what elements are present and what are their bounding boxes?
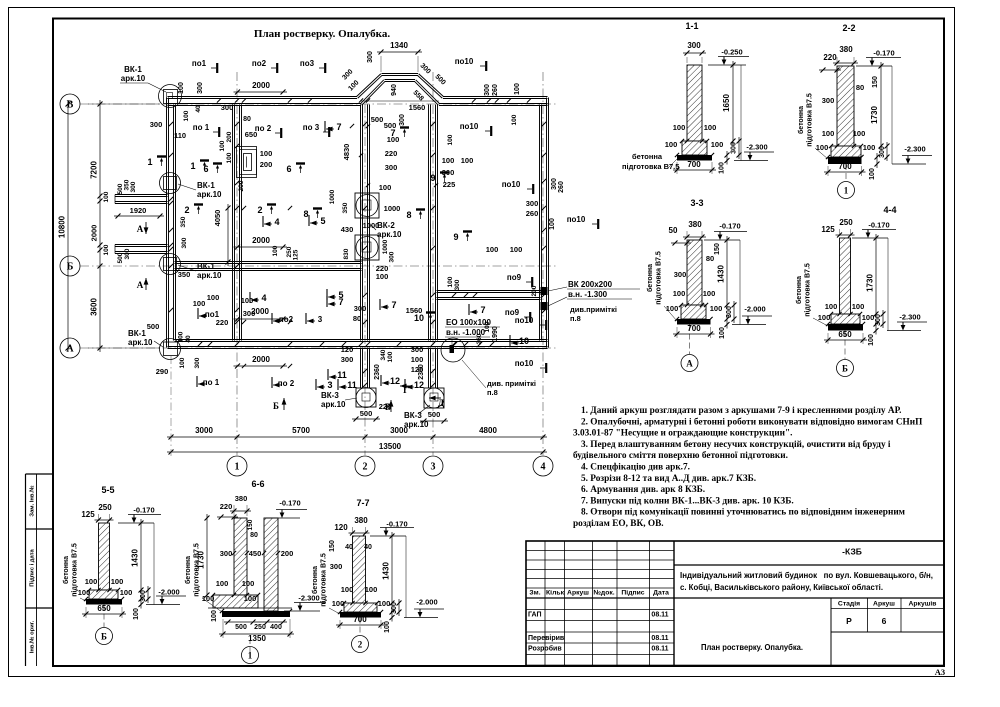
svg-text:100: 100 [260,149,273,158]
porch stub wall lower [115,246,168,248]
svg-text:див. приміткі: див. приміткі [487,379,536,388]
svg-text:Аркушів: Аркушів [909,600,937,608]
svg-text:бетонна: бетонна [632,152,663,161]
svg-text:500: 500 [384,121,397,130]
column pad VK-1 at axis B2 [164,258,177,271]
svg-text:100: 100 [133,608,140,620]
svg-text:-2.300: -2.300 [899,313,920,322]
corridor wall right wing [437,292,541,294]
svg-text:500: 500 [147,322,160,331]
svg-text:100: 100 [78,588,91,597]
svg-text:бетонна: бетонна [311,566,319,594]
svg-text:100: 100 [852,302,865,311]
svg-text:2: 2 [257,205,262,215]
svg-text:7: 7 [336,122,341,132]
svg-text:по10: по10 [460,122,479,131]
svg-text:7: 7 [480,305,485,315]
svg-text:1430: 1430 [717,265,726,283]
title block vertical lines left part [673,541,675,666]
svg-text:2360: 2360 [374,364,381,380]
wall intersection tick marks [235,98,239,102]
svg-text:100: 100 [384,621,391,633]
axis line B2 horizontal [80,265,556,267]
svg-text:260: 260 [492,84,499,96]
svg-text:100: 100 [226,152,233,163]
embedded item VK 200x200 lower [541,302,548,310]
svg-text:6: 6 [882,616,887,626]
svg-text:ВК-1: ВК-1 [128,329,146,338]
svg-text:№док.: №док. [593,590,614,597]
svg-text:500: 500 [428,410,441,419]
svg-text:3600: 3600 [90,298,99,316]
svg-text:2000: 2000 [252,236,270,245]
svg-text:100: 100 [241,296,254,305]
svg-text:125: 125 [821,225,835,234]
svg-text:9: 9 [453,232,458,242]
svg-text:100: 100 [365,585,378,594]
svg-text:1920: 1920 [130,206,147,215]
svg-text:100: 100 [514,83,521,95]
svg-text:Кільк: Кільк [546,589,565,597]
svg-text:100: 100 [120,588,133,597]
left dimension column inner [99,100,101,352]
svg-text:ВК-1: ВК-1 [197,262,215,271]
svg-text:100: 100 [376,272,389,281]
svg-text:-2.000: -2.000 [416,598,437,607]
slope mark 3 lower room [305,313,307,324]
svg-text:по 2: по 2 [278,379,295,388]
svg-text:250: 250 [98,503,112,512]
svg-text:арк.10: арк.10 [197,190,222,199]
bottom exterior wall axis A [168,348,548,350]
svg-text:А3: А3 [935,667,945,677]
svg-text:Б: Б [101,632,107,642]
svg-text:80: 80 [353,314,361,323]
svg-text:110: 110 [174,131,186,140]
svg-text:100: 100 [442,156,455,165]
svg-text:220: 220 [385,149,398,158]
svg-text:290: 290 [156,367,169,376]
svg-text:150: 150 [247,519,254,530]
svg-text:3. Перед влаштуванням бетону н: 3. Перед влаштуванням бетону несучих кон… [581,439,891,450]
svg-text:100: 100 [211,610,218,622]
dim 500 under VK-3 left [352,418,380,420]
left dimension column total 10800 [67,100,69,352]
dim 500 under VK-3 right [420,420,448,422]
svg-text:300: 300 [354,304,367,313]
svg-text:1340: 1340 [390,41,408,50]
svg-text:А: А [686,359,693,369]
svg-text:по 1: по 1 [203,378,220,387]
svg-text:100: 100 [387,351,394,362]
svg-text:10: 10 [519,336,529,346]
svg-text:150: 150 [872,76,879,88]
svg-text:120: 120 [411,365,424,374]
svg-text:830: 830 [343,248,350,259]
svg-text:ВК 200х200: ВК 200х200 [568,280,613,289]
svg-text:100: 100 [461,156,474,165]
column pad VK-2 lower [355,235,379,260]
svg-text:100: 100 [818,313,831,322]
svg-text:80: 80 [706,254,714,263]
svg-text:4: 4 [274,217,279,227]
svg-text:300: 300 [389,251,396,262]
svg-text:100: 100 [719,327,726,339]
svg-text:арк.10: арк.10 [197,271,222,280]
svg-text:100: 100 [242,579,255,588]
svg-text:План ростверку. Опалубка.: План ростверку. Опалубка. [701,642,803,652]
title block frame [526,541,944,666]
svg-text:5: 5 [320,216,325,226]
svg-text:100: 100 [666,304,679,313]
svg-text:8. Отвори під комунікації пови: 8. Отвори під комунікації повинні уточню… [581,507,906,518]
svg-text:4. Спецфікацію див арк.7.: 4. Спецфікацію див арк.7. [581,462,690,473]
svg-text:4-4: 4-4 [883,205,896,215]
svg-text:підготовка В7.5: підготовка В7.5 [320,553,328,607]
svg-text:300: 300 [220,549,233,558]
svg-text:7: 7 [391,300,396,310]
view arrow B bottom [283,398,285,410]
svg-text:Підпис і дата: Підпис і дата [30,548,36,586]
svg-text:2: 2 [184,205,189,215]
svg-text:1: 1 [248,651,253,661]
svg-text:100: 100 [711,140,724,149]
svg-text:-0.250: -0.250 [721,48,742,57]
axis line B horizontal [80,103,556,105]
svg-text:100: 100 [85,577,98,586]
title block stage table [830,598,832,666]
svg-text:с. Кобці, Васильківського райо: с. Кобці, Васильківського району, Київсь… [680,582,883,592]
svg-text:-2.000: -2.000 [158,588,179,597]
small duct wall near axis 1 [237,147,257,178]
svg-text:1000: 1000 [329,189,336,204]
svg-text:700: 700 [353,615,367,624]
svg-text:100: 100 [387,135,400,144]
svg-text:1730: 1730 [870,106,879,124]
svg-text:500: 500 [360,409,373,418]
svg-text:3: 3 [327,380,332,390]
column pad VK-3 right [424,388,444,408]
svg-text:Б: Б [273,401,279,411]
svg-text:200: 200 [238,180,245,191]
svg-text:бетонна: бетонна [795,276,803,304]
svg-text:арк.10: арк.10 [377,230,402,239]
svg-text:5. Розрізи 8-12 та вид А..Д ди: 5. Розрізи 8-12 та вид А..Д див. арк.7 К… [581,473,756,484]
svg-text:6-6: 6-6 [251,479,264,489]
svg-text:по10: по10 [515,316,534,325]
svg-text:3-3: 3-3 [690,198,703,208]
svg-text:380: 380 [839,45,853,54]
svg-text:-0.170: -0.170 [868,221,889,230]
svg-text:100: 100 [178,331,185,342]
svg-text:50: 50 [669,226,678,235]
svg-text:7200: 7200 [90,161,99,179]
view arrow V [390,400,392,412]
svg-text:100: 100 [710,304,723,313]
svg-text:1990: 1990 [492,326,499,342]
svg-text:Стадія: Стадія [838,600,860,608]
svg-text:100: 100 [178,82,185,94]
svg-text:300: 300 [822,96,835,105]
svg-text:-0.170: -0.170 [279,499,300,508]
svg-text:1650: 1650 [722,94,731,112]
svg-text:100: 100 [202,594,215,603]
svg-text:6. Армування див. арк 8 КЗБ.: 6. Армування див. арк 8 КЗБ. [581,485,705,495]
left exterior wall [166,98,168,348]
interior wall axis B2 [175,263,362,265]
svg-text:Підпис: Підпис [621,589,644,597]
dim 2000 room2 [234,246,288,248]
title block horizontal lines left part [526,550,674,552]
svg-text:300: 300 [221,103,234,112]
view arrow A upper [145,222,147,234]
svg-text:п.8: п.8 [570,314,581,323]
svg-text:А: А [137,224,144,234]
svg-text:2000: 2000 [252,81,270,90]
svg-text:100: 100 [447,276,454,287]
svg-text:40: 40 [195,105,202,113]
svg-text:100: 100 [447,134,454,145]
svg-text:100: 100 [193,299,206,308]
svg-text:500: 500 [371,115,384,124]
svg-text:100: 100 [673,123,686,132]
svg-text:100: 100 [379,183,392,192]
svg-text:1. Даний аркуш розглядати разо: 1. Даний аркуш розглядати разом з аркуша… [581,405,901,416]
svg-text:7. Випуски під колни ВК-1...ВК: 7. Випуски під колни ВК-1...ВК-3 див. ар… [581,495,794,506]
svg-text:-0.170: -0.170 [719,222,740,231]
svg-text:4830: 4830 [342,144,351,161]
column pad VK-1 bottom-left [164,342,178,356]
svg-text:450: 450 [249,549,262,558]
embedded item VK 200x200 upper [541,287,548,295]
svg-text:арк.10: арк.10 [121,74,146,83]
svg-text:по10: по10 [502,180,521,189]
svg-text:260: 260 [476,333,483,344]
svg-text:380: 380 [235,494,248,503]
svg-text:260: 260 [558,181,565,193]
svg-text:300: 300 [674,270,687,279]
svg-text:Дата: Дата [653,590,669,597]
svg-text:100: 100 [378,599,391,608]
svg-text:8: 8 [303,209,308,219]
svg-text:300: 300 [181,237,188,248]
svg-text:5-5: 5-5 [101,485,114,495]
axis bubble B [60,94,80,114]
axis line A horizontal [80,347,556,349]
svg-text:4: 4 [541,462,546,473]
view arrow A lower [145,278,147,290]
svg-text:10800: 10800 [58,215,67,238]
svg-text:80: 80 [856,83,864,92]
svg-text:1730: 1730 [866,274,875,292]
svg-text:100: 100 [179,357,186,368]
slope label po2 lower room [271,313,273,324]
svg-text:3: 3 [431,462,436,473]
top exterior wall axis B [168,98,358,100]
svg-text:Зам. Інв.№: Зам. Інв.№ [30,485,36,516]
svg-text:700: 700 [687,324,701,333]
dim 1340 bay [377,51,422,53]
svg-text:1430: 1430 [382,562,391,580]
svg-text:розділам ЕО, ВК, ОВ.: розділам ЕО, ВК, ОВ. [573,518,664,529]
title block doc code cell [674,564,944,566]
svg-text:100: 100 [341,585,354,594]
svg-text:260: 260 [526,209,539,218]
axis bubble A [60,338,80,358]
svg-text:А: А [137,280,144,290]
axis bubble 1 [227,456,247,476]
svg-text:100: 100 [332,599,345,608]
svg-text:100: 100 [853,129,866,138]
svg-text:7-7: 7-7 [356,498,369,508]
dim 2000 lower rooms [234,318,288,320]
svg-text:13500: 13500 [379,442,402,451]
svg-text:100: 100 [183,110,190,121]
svg-text:300: 300 [194,357,201,368]
svg-text:по2: по2 [279,315,294,324]
svg-text:100: 100 [272,245,279,256]
svg-text:80: 80 [250,532,258,539]
svg-text:300: 300 [731,142,738,154]
svg-text:підготовка В7.5: підготовка В7.5 [193,543,201,597]
svg-text:40: 40 [345,544,353,551]
svg-text:підготовка В7.5: підготовка В7.5 [655,251,663,305]
slope label po2 bottom [271,377,273,388]
svg-text:12: 12 [390,376,400,386]
svg-text:400: 400 [270,624,282,631]
svg-text:40: 40 [364,544,372,551]
svg-text:300: 300 [367,51,374,63]
axis line 2 vertical [364,104,366,455]
svg-text:1: 1 [235,462,240,473]
bottom dimension row total 13500 [167,451,547,453]
svg-text:08.11: 08.11 [651,635,668,642]
svg-text:40: 40 [185,335,192,343]
interior wall axis 1 [232,105,234,341]
interior wall axis 3 [428,105,430,341]
porch stub wall upper [115,196,168,198]
svg-text:2. Опалубочні, арматурні і бет: 2. Опалубочні, арматурні і бетонні робот… [581,416,923,427]
svg-text:300: 300 [124,248,131,259]
svg-text:300: 300 [454,279,461,290]
svg-text:1430: 1430 [131,549,140,567]
svg-text:100: 100 [549,218,556,230]
svg-text:100: 100 [244,594,257,603]
svg-text:100: 100 [862,313,875,322]
svg-text:940: 940 [391,84,398,96]
svg-text:арк.10: арк.10 [128,338,153,347]
svg-text:200: 200 [260,160,273,169]
svg-text:1000: 1000 [363,221,380,230]
svg-text:3: 3 [318,315,323,324]
svg-text:по1: по1 [192,59,207,68]
svg-text:Б: Б [842,364,848,374]
svg-text:2: 2 [363,462,368,473]
svg-text:220: 220 [216,318,229,327]
svg-text:380: 380 [688,220,702,229]
svg-text:300: 300 [130,181,137,192]
svg-text:2: 2 [358,640,363,650]
svg-text:2000: 2000 [252,355,270,364]
svg-text:100: 100 [868,334,875,346]
svg-text:5700: 5700 [292,426,310,435]
svg-text:200: 200 [226,131,233,142]
svg-text:120: 120 [341,345,354,354]
svg-text:340: 340 [380,349,387,360]
svg-text:650: 650 [838,330,852,339]
svg-text:100: 100 [510,245,523,254]
svg-text:08.11: 08.11 [651,612,668,619]
svg-text:1-1: 1-1 [685,21,698,31]
svg-text:8: 8 [406,210,411,220]
svg-text:1: 1 [190,161,195,171]
svg-text:-2.300: -2.300 [904,145,925,154]
svg-text:150: 150 [329,540,336,552]
svg-text:120: 120 [334,523,348,532]
svg-text:Аркуш: Аркуш [873,601,895,608]
svg-text:бетонна: бетонна [184,556,192,584]
svg-text:430: 430 [341,225,354,234]
left attachment column [25,474,27,666]
svg-text:по3: по3 [300,59,315,68]
svg-text:700: 700 [838,162,852,171]
interior wall axis 2 [360,105,362,341]
svg-text:100: 100 [825,302,838,311]
svg-text:300: 300 [399,114,406,126]
dim 2000 below A [234,365,288,367]
axis line 1 vertical [236,72,238,455]
svg-text:4800: 4800 [479,426,497,435]
svg-text:-2.000: -2.000 [744,305,765,314]
svg-text:ВК-1: ВК-1 [197,181,215,190]
svg-text:3000: 3000 [195,426,213,435]
svg-text:100: 100 [219,140,226,151]
slope label po1 bottom [196,376,198,387]
svg-text:4: 4 [261,293,266,303]
svg-text:ВК-1: ВК-1 [124,65,142,74]
svg-text:6: 6 [203,164,208,174]
svg-text:по10: по10 [567,215,586,224]
column pad VK-3 left [356,388,376,407]
svg-text:125: 125 [293,249,300,260]
svg-text:1560: 1560 [406,306,423,315]
svg-text:350: 350 [178,270,191,279]
svg-text:1350: 1350 [248,634,266,643]
svg-text:100: 100 [486,245,499,254]
svg-text:-КЗБ: -КЗБ [842,547,862,557]
svg-text:100: 100 [511,114,518,125]
svg-text:100: 100 [816,143,829,152]
svg-text:9: 9 [430,173,435,183]
svg-text:300: 300 [687,41,701,50]
svg-text:100: 100 [869,168,876,180]
embedded item EO 100x100 [450,345,455,353]
svg-text:Д: Д [438,398,445,408]
axis bubble 4 [533,456,553,476]
callout circle around EO item [441,338,465,362]
svg-text:бетонна: бетонна [797,106,805,134]
svg-text:по9: по9 [507,273,522,282]
dim 2000 top wall [234,91,288,93]
svg-text:ВК-2: ВК-2 [377,221,395,230]
svg-text:100: 100 [863,143,876,152]
slope label po1 lower room [197,308,199,319]
svg-text:500: 500 [235,624,247,631]
svg-text:3.03.01-87 "Несущие и ограждаю: 3.03.01-87 "Несущие и ограждающие констр… [573,429,792,439]
stub below axis A at axis 3 [428,348,430,389]
svg-text:250: 250 [839,218,853,227]
svg-text:100: 100 [111,577,124,586]
